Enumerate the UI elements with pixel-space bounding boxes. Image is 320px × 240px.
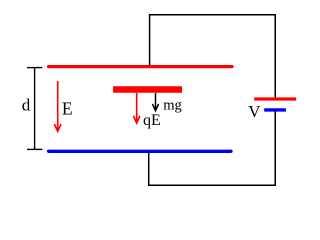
- svg-text:V: V: [248, 102, 261, 121]
- svg-text:E: E: [62, 99, 73, 119]
- wire bottom horizontal: [148, 184, 276, 186]
- force arrow qE (red, downward): [136, 93, 138, 123]
- bottom capacitor plate (blue): [49, 150, 231, 153]
- charged rod between plates (red bar): [113, 86, 182, 93]
- battery V positive terminal (long red plate): [254, 97, 296, 100]
- battery V negative terminal (short blue plate): [264, 108, 286, 111]
- wire left vertical from top plate: [149, 14, 151, 66]
- svg-text:d: d: [22, 96, 31, 115]
- wire left vertical from bottom plate: [148, 153, 150, 187]
- svg-text:qE: qE: [143, 112, 161, 129]
- wire top horizontal: [149, 14, 276, 16]
- top capacitor plate (red): [49, 65, 232, 68]
- dimension line d vertical: [34, 68, 36, 150]
- svg-text:mg: mg: [163, 97, 182, 113]
- dimension tick bottom: [27, 148, 42, 150]
- dimension tick top: [27, 67, 42, 69]
- E field arrow (red, downward): [57, 81, 59, 131]
- wire right vertical upper to battery: [274, 14, 276, 98]
- force arrow mg (black, downward): [155, 93, 157, 111]
- wire right vertical lower from battery: [274, 112, 276, 187]
